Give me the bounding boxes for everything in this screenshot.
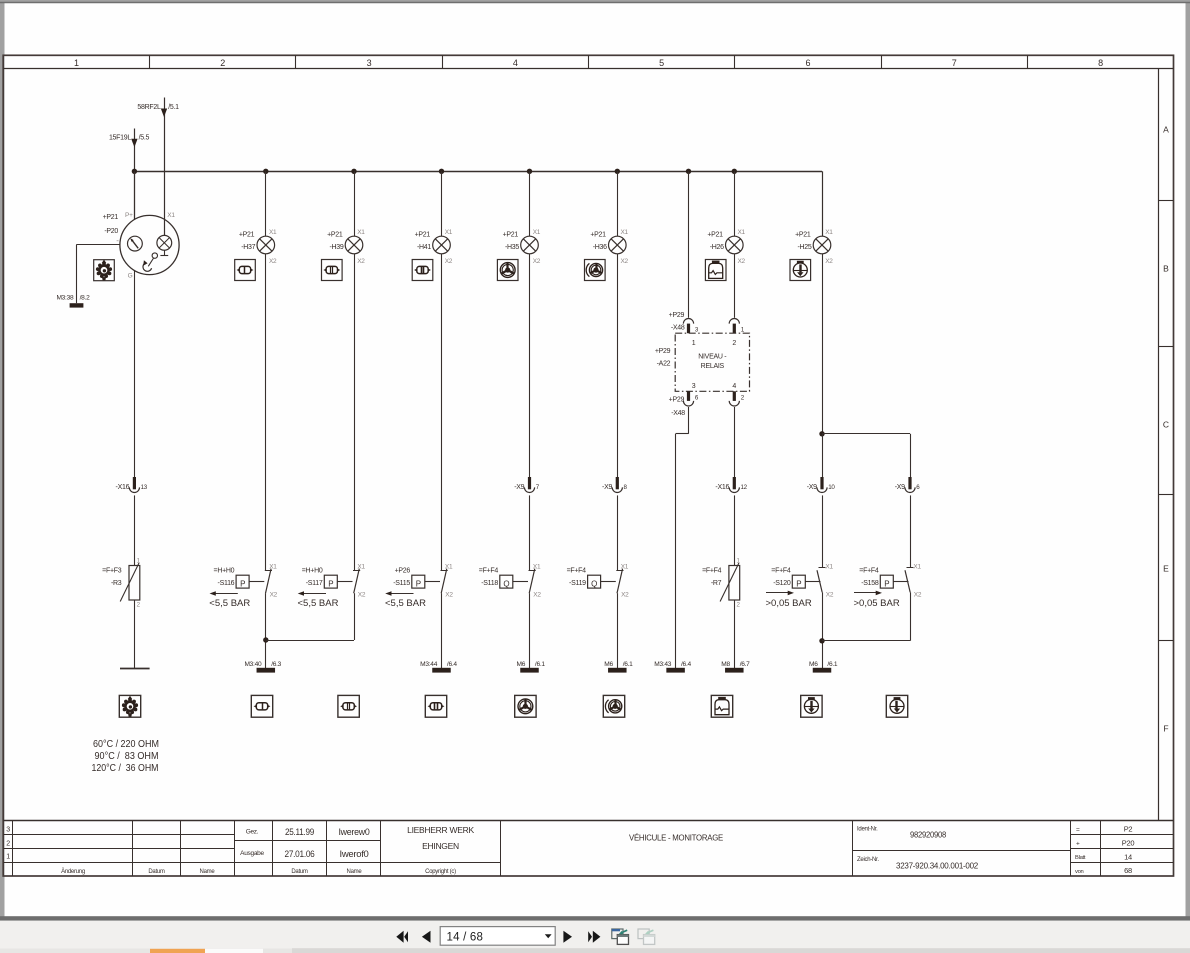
svg-text:Copyright (c): Copyright (c) — [425, 869, 456, 875]
svg-text:-S118: -S118 — [481, 580, 498, 587]
ground M6 /6.1 — [516, 661, 545, 672]
svg-text:=F+F4: =F+F4 — [479, 567, 499, 574]
svg-text:14 / 68: 14 / 68 — [447, 932, 484, 944]
svg-text:M3:44: M3:44 — [420, 661, 438, 668]
wire junction to connector X9:10 — [822, 434, 824, 477]
lamp H26 — [707, 229, 745, 265]
svg-text:>0,05 BAR: >0,05 BAR — [766, 598, 812, 609]
svg-text:X2: X2 — [621, 258, 629, 265]
svg-text:2: 2 — [6, 841, 10, 848]
svg-text:8: 8 — [1098, 58, 1103, 68]
svg-text:-H35: -H35 — [505, 244, 519, 251]
svg-text:NIVEAU -: NIVEAU - — [698, 354, 727, 361]
svg-text:X1: X1 — [445, 564, 453, 571]
legend telltale box at x=897 (wheelarrow) — [886, 695, 907, 717]
svg-text:+P21: +P21 — [503, 232, 519, 239]
wire P20 G pin down to X16:13 — [134, 270, 136, 477]
telltale icon box for H39 — [322, 260, 343, 281]
svg-text:=F+F4: =F+F4 — [771, 567, 791, 574]
junction S116/S117 — [263, 637, 268, 642]
svg-text:/6.1: /6.1 — [623, 661, 633, 668]
ground M6 /6.1 — [604, 661, 633, 672]
wire lamp H39 to switch -S117 — [354, 254, 356, 570]
svg-text:6: 6 — [805, 58, 810, 68]
svg-text:+P26: +P26 — [395, 567, 411, 574]
svg-text:Zeich-Nr.: Zeich-Nr. — [857, 857, 879, 863]
svg-text:Änderung: Änderung — [61, 868, 85, 875]
svg-text:-P20: -P20 — [104, 228, 118, 235]
svg-text:+: + — [1076, 841, 1080, 848]
wire X16:12 to resistor R7 — [734, 495, 736, 565]
svg-text:4: 4 — [732, 383, 736, 390]
svg-text:68: 68 — [1124, 866, 1132, 875]
junction S120/S158 bottoms — [819, 638, 910, 643]
chassis ground line below R3 — [120, 668, 150, 670]
pressure switch -S117 — [298, 564, 366, 610]
svg-text:P: P — [796, 579, 801, 588]
svg-text:X1: X1 — [621, 229, 629, 236]
svg-text:27.01.06: 27.01.06 — [285, 849, 315, 859]
svg-text:P: P — [240, 579, 245, 588]
toolbar previous-page button — [422, 931, 431, 943]
indicator lamp inside P20 — [157, 235, 172, 255]
svg-text:58RF2L: 58RF2L — [137, 104, 161, 111]
svg-text:X1: X1 — [533, 229, 541, 236]
toolbar page number combo box — [440, 927, 555, 946]
telltale icon box for H36 — [585, 260, 606, 281]
svg-text:Gez.: Gez. — [246, 829, 259, 836]
svg-text:RELAIS: RELAIS — [701, 363, 725, 370]
svg-text:Blatt: Blatt — [1075, 855, 1086, 861]
svg-text:M6: M6 — [809, 661, 818, 668]
svg-text:+P29: +P29 — [655, 348, 671, 355]
svg-text:/6.4: /6.4 — [447, 661, 457, 668]
svg-text:-H37: -H37 — [241, 244, 255, 251]
svg-text:-S115: -S115 — [393, 580, 410, 587]
toolbar restore-view button (disabled) — [638, 929, 655, 944]
svg-text:=H+H0: =H+H0 — [214, 567, 235, 574]
svg-text:X2: X2 — [914, 592, 922, 599]
telltale icon box for H35 — [497, 260, 518, 281]
svg-text:90°C / 83 OHM: 90°C / 83 OHM — [95, 751, 159, 762]
svg-text:M6: M6 — [604, 661, 613, 668]
svg-text:M3:38: M3:38 — [56, 294, 74, 301]
svg-text:M8: M8 — [721, 661, 730, 668]
wire connector to switch -S119 — [617, 495, 619, 570]
svg-text:X1: X1 — [533, 564, 541, 571]
svg-text:12: 12 — [741, 484, 748, 491]
title block issue data — [240, 827, 370, 859]
connector -X16 pin 12 — [715, 477, 747, 493]
svg-text:X1: X1 — [357, 564, 365, 571]
legend telltale box at x=262 (lamp) — [251, 695, 272, 717]
legend telltale box at x=811.4 (wheelarrow) — [801, 695, 822, 717]
svg-text:X2: X2 — [357, 258, 365, 265]
svg-text:120°C / 36 OHM: 120°C / 36 OHM — [92, 763, 159, 774]
svg-text:60°C / 220 OHM: 60°C / 220 OHM — [93, 739, 159, 750]
legend telltale box at x=436 (lamp) — [425, 695, 446, 717]
svg-text:3237-920.34.00.001-002: 3237-920.34.00.001-002 — [896, 861, 978, 871]
svg-text:Datum: Datum — [148, 869, 165, 875]
connector +P29 -X48 pin 3 — [669, 312, 699, 334]
svg-text:X2: X2 — [358, 592, 366, 599]
svg-text:=F+F4: =F+F4 — [567, 567, 587, 574]
wire connector to switch -S118 — [529, 495, 531, 570]
wire bus to lamp H39 — [354, 171, 356, 236]
svg-text:P: P — [416, 579, 421, 588]
lamp H25 — [795, 229, 833, 265]
toolbar restore-view button (active) — [612, 929, 629, 944]
svg-text:/5.1: /5.1 — [168, 104, 179, 111]
row letter strip — [1158, 69, 1173, 821]
wire switch -S115 to ground — [441, 593, 443, 668]
svg-text:X1: X1 — [269, 564, 277, 571]
svg-text:LIEBHERR WERK: LIEBHERR WERK — [407, 825, 474, 835]
connector -X9 pin 6 — [895, 477, 920, 492]
svg-text:<5,5 BAR: <5,5 BAR — [209, 598, 250, 609]
svg-text:=F+F4: =F+F4 — [702, 567, 722, 574]
svg-text:-X9: -X9 — [807, 484, 817, 491]
svg-text:+P21: +P21 — [103, 214, 119, 221]
ground M3:38 /8.2 — [56, 294, 90, 307]
wire bus to lamp H36 — [617, 171, 619, 236]
legend telltale box at x=614 (wheel) — [603, 695, 624, 717]
pressure switch -S119 — [567, 564, 630, 599]
temperature sensor resistor R3 — [102, 558, 140, 609]
ground M3:43 /6.4 — [654, 661, 691, 672]
toolbar first-page button — [396, 931, 408, 943]
svg-text:=H+H0: =H+H0 — [302, 567, 323, 574]
connector -X9 pin 10 — [807, 477, 836, 492]
svg-text:13: 13 — [141, 484, 148, 491]
svg-text:Iwerof0: Iwerof0 — [340, 849, 369, 859]
svg-text:/6.3: /6.3 — [271, 661, 281, 668]
svg-text:X1: X1 — [621, 564, 629, 571]
svg-text:M3:40: M3:40 — [244, 661, 262, 668]
title block revision numbers — [6, 827, 10, 861]
svg-text:X1: X1 — [445, 229, 453, 236]
wire X16:13 to resistor R3 — [134, 495, 136, 565]
svg-text:X1: X1 — [825, 229, 833, 236]
svg-text:-R3: -R3 — [111, 580, 122, 587]
wire switch -S118 to ground — [529, 593, 531, 668]
svg-text:+P21: +P21 — [415, 232, 431, 239]
connector -X48 pin 1 — [729, 319, 745, 334]
svg-text:X2: X2 — [445, 258, 453, 265]
lamp branch H26 from bus — [734, 171, 736, 236]
svg-text:Q: Q — [503, 579, 509, 588]
connector +P29 -X48 pin 6 — [669, 391, 699, 417]
svg-text:-S158: -S158 — [861, 580, 879, 587]
svg-text:-S116: -S116 — [218, 580, 235, 587]
svg-text:X2: X2 — [621, 592, 629, 599]
svg-text:X2: X2 — [533, 258, 541, 265]
pressure switch S158 — [854, 564, 922, 609]
wire bus to lamp H35 — [529, 171, 531, 236]
pressure switch -S116 — [209, 564, 277, 610]
connector -X48 pin 2 — [729, 391, 745, 406]
wire lamp H36 to connector -X9 — [617, 254, 619, 477]
svg-text:982920908: 982920908 — [910, 830, 946, 840]
svg-text:Name: Name — [200, 869, 216, 875]
svg-text:2: 2 — [220, 58, 225, 68]
level relay A22 NIVEAU-RELAIS — [655, 333, 750, 391]
wire S158 down to junction — [910, 592, 912, 640]
svg-text:15F19L: 15F19L — [109, 134, 131, 141]
svg-text:X2: X2 — [445, 592, 453, 599]
svg-text:<5,5 BAR: <5,5 BAR — [298, 598, 339, 609]
svg-text:+P29: +P29 — [669, 397, 685, 404]
svg-text:3: 3 — [6, 827, 10, 834]
wire S117 to junction with S116 — [266, 593, 355, 640]
wire S120 to ground junction — [822, 592, 824, 668]
svg-text:-A22: -A22 — [657, 361, 671, 368]
svg-text:-X16: -X16 — [116, 484, 130, 491]
title block header labels — [61, 868, 456, 875]
oil-can symbol inside P20 — [143, 253, 157, 271]
svg-text:14: 14 — [1124, 853, 1132, 862]
wire switch -S116 to ground — [265, 593, 267, 668]
legend telltale box at x=130 (gear) — [119, 695, 140, 717]
resistance table text for R3 — [92, 739, 160, 774]
legend telltale box at x=722 (tank) — [711, 695, 732, 717]
telltale icon box for H41 — [412, 260, 433, 281]
svg-text:P20: P20 — [1122, 839, 1135, 848]
legend telltale box at x=525.4 (wheel) — [515, 695, 536, 717]
wire R3 to chassis ground — [134, 600, 136, 668]
wire lamp H41 to switch -S115 — [441, 254, 443, 570]
lamp H41 — [415, 229, 453, 265]
ground M3:44 /6.4 — [420, 661, 457, 672]
svg-text:/6.1: /6.1 — [535, 661, 545, 668]
pressure switch S120 — [766, 564, 834, 609]
gauge dial inside P20 — [127, 236, 142, 251]
svg-text:A: A — [1163, 125, 1169, 135]
svg-text:F: F — [1163, 724, 1168, 734]
svg-text:P: P — [328, 579, 333, 588]
svg-text:4: 4 — [513, 58, 518, 68]
svg-text:Iwerew0: Iwerew0 — [339, 827, 370, 837]
svg-text:5: 5 — [659, 58, 664, 68]
svg-text:+P29: +P29 — [669, 312, 685, 319]
wire bus to lamp H37 — [265, 171, 267, 236]
svg-text:1: 1 — [74, 58, 79, 68]
svg-text:P2: P2 — [1124, 825, 1133, 834]
svg-text:+P21: +P21 — [590, 232, 606, 239]
connector -X9 pin 8 — [602, 477, 627, 493]
wire lamp H26 to connector X48:1 — [734, 254, 736, 318]
svg-text:3: 3 — [367, 58, 372, 68]
ground M8 /6.7 — [721, 661, 750, 672]
wire bus corner to lamp H25 — [822, 171, 824, 236]
level sensor resistor R7 — [702, 558, 740, 609]
lamp H35 — [503, 229, 541, 265]
junction to S158 branch — [819, 431, 910, 436]
pressure switch -S115 — [385, 564, 453, 610]
svg-text:X1: X1 — [738, 229, 746, 236]
main supply bus wire — [134, 171, 822, 173]
svg-text:X1: X1 — [167, 212, 175, 219]
svg-text:M6: M6 — [516, 661, 525, 668]
wire X9:10 to switch S120 — [822, 495, 824, 567]
wire lamp H25 down to branch junction — [822, 254, 824, 434]
svg-text:EHINGEN: EHINGEN — [422, 841, 459, 851]
svg-text:X1: X1 — [269, 229, 277, 236]
svg-text:=F+F3: =F+F3 — [102, 567, 122, 574]
svg-text:-R7: -R7 — [711, 580, 722, 587]
svg-text:G: G — [128, 273, 133, 280]
svg-text:X1: X1 — [825, 564, 833, 571]
svg-text:E: E — [1163, 564, 1169, 574]
svg-text:-H25: -H25 — [797, 244, 811, 251]
wire lamp H35 to connector -X9 — [529, 254, 531, 477]
svg-text:+P21: +P21 — [239, 232, 255, 239]
svg-text:7: 7 — [952, 58, 957, 68]
column number strip — [74, 55, 1103, 69]
svg-text:+P21: +P21 — [327, 232, 343, 239]
svg-text:-X9: -X9 — [514, 484, 524, 491]
svg-text:<5,5 BAR: <5,5 BAR — [385, 598, 426, 609]
svg-text:/8.2: /8.2 — [80, 294, 90, 301]
svg-text:M3:43: M3:43 — [654, 661, 672, 668]
wire bus to connector X48:3 — [688, 171, 690, 317]
toolbar next-page button — [563, 931, 572, 943]
wire P20 minus to ground — [76, 245, 120, 304]
svg-text:3: 3 — [692, 383, 696, 390]
Ident-Nr cell — [857, 827, 946, 840]
svg-text:/5.5: /5.5 — [139, 134, 150, 141]
svg-text:/6.4: /6.4 — [681, 661, 691, 668]
bus junction dots — [132, 169, 737, 174]
svg-text:X2: X2 — [533, 592, 541, 599]
svg-text:X2: X2 — [738, 258, 746, 265]
wire switch -S119 to ground — [617, 593, 619, 668]
svg-text:2: 2 — [732, 340, 736, 347]
svg-text:C: C — [1163, 420, 1169, 430]
telltale icon box for H25 (steering pressure) — [790, 260, 811, 281]
manufacturer LIEBHERR WERK EHINGEN — [407, 825, 474, 851]
svg-text:Name: Name — [347, 869, 363, 875]
svg-text:VÉHICULE - MONITORAGE: VÉHICULE - MONITORAGE — [629, 833, 723, 843]
ground M6 /6.1 for S120 — [809, 661, 838, 672]
svg-text:=: = — [1076, 827, 1080, 834]
svg-text:Ident-Nr.: Ident-Nr. — [857, 827, 878, 833]
gear telltale box near P20 — [94, 260, 115, 281]
wire X9:6 to switch S158 — [910, 495, 912, 567]
svg-text:10: 10 — [828, 484, 835, 491]
svg-text:1: 1 — [692, 340, 696, 347]
title block grid — [3, 820, 1173, 876]
telltale icon box for H37 — [235, 260, 256, 281]
svg-text:-X9: -X9 — [895, 484, 905, 491]
svg-text:+P21: +P21 — [707, 232, 723, 239]
svg-text:X2: X2 — [269, 258, 277, 265]
wire X48:2 to connector X16:12 — [734, 407, 736, 477]
svg-text:-H26: -H26 — [710, 244, 724, 251]
sheet index cells — [1075, 825, 1134, 876]
ground M3:40 /6.3 — [244, 661, 281, 672]
svg-text:von: von — [1075, 869, 1084, 875]
svg-text:>0,05 BAR: >0,05 BAR — [854, 598, 900, 609]
toolbar background — [0, 916, 1190, 953]
svg-text:+P21: +P21 — [795, 232, 811, 239]
svg-text:/6.7: /6.7 — [740, 661, 750, 668]
svg-text:P+: P+ — [125, 212, 133, 219]
lamp H36 — [590, 229, 628, 265]
svg-text:-S117: -S117 — [306, 580, 323, 587]
instrument gauge unit P20 — [103, 212, 180, 280]
svg-text:-S120: -S120 — [773, 580, 791, 587]
connector -X9 pin 7 — [514, 477, 539, 492]
svg-text:/6.1: /6.1 — [827, 661, 837, 668]
svg-text:-H39: -H39 — [329, 244, 343, 251]
svg-text:-S119: -S119 — [569, 580, 586, 587]
svg-text:P: P — [884, 579, 889, 588]
Zeich-Nr cell — [857, 857, 978, 871]
svg-text:X1: X1 — [913, 564, 921, 571]
pressure switch -S118 — [479, 564, 542, 599]
svg-text:Ausgabe: Ausgabe — [240, 850, 264, 857]
wire bus to P20 P+ pin — [134, 171, 136, 220]
wire branch down to connector X9:6 — [910, 434, 912, 477]
wire bus to lamp H41 — [441, 171, 443, 236]
wire lamp H37 to switch -S116 — [265, 254, 267, 570]
svg-text:25.11.99: 25.11.99 — [285, 827, 314, 837]
legend telltale box at x=348.6 (lamp) — [338, 695, 359, 717]
svg-text:Q: Q — [591, 579, 597, 588]
svg-text:X2: X2 — [826, 592, 834, 599]
telltale icon box for H26 (washer reservoir) — [705, 260, 726, 281]
svg-text:-X9: -X9 — [602, 484, 612, 491]
svg-text:=F+F4: =F+F4 — [859, 567, 879, 574]
svg-text:-H41: -H41 — [417, 244, 431, 251]
svg-text:Datum: Datum — [291, 869, 308, 875]
lamp H39 — [327, 229, 365, 265]
svg-text:-X48: -X48 — [671, 410, 685, 417]
svg-text:B: B — [1163, 264, 1169, 274]
supply arrow 58RF2L /5.1 — [137, 98, 179, 236]
svg-text:1: 1 — [6, 854, 10, 861]
wire X48:6 to ground M3:43 — [676, 407, 689, 668]
toolbar last-page button — [588, 931, 600, 943]
svg-text:-X16: -X16 — [715, 484, 729, 491]
svg-text:-H36: -H36 — [593, 244, 607, 251]
svg-text:X2: X2 — [270, 592, 278, 599]
svg-text:X2: X2 — [825, 258, 833, 265]
svg-text:-X48: -X48 — [671, 325, 685, 332]
supply arrow 15F19L /5.5 — [109, 129, 150, 220]
svg-text:X1: X1 — [357, 229, 365, 236]
connector -X16 pin 13 — [116, 477, 148, 493]
lamp H37 — [239, 229, 277, 265]
wire R7 to ground M8 — [734, 600, 736, 668]
